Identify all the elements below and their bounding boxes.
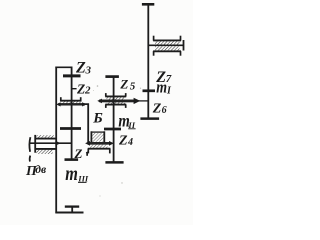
- gear Z1 tick: [60, 127, 81, 130]
- svg-text:Z: Z: [152, 101, 162, 116]
- svg-text:дв: дв: [35, 164, 46, 176]
- wire: bottom horizontal from shaft I: [55, 212, 83, 214]
- shaft I (left vertical): [55, 67, 57, 214]
- label m III: [65, 162, 78, 184]
- svg-text:II: II: [127, 120, 135, 130]
- gear Z3 tick: [63, 74, 81, 77]
- block B upper flanges + hatch: [91, 131, 105, 142]
- svg-text:5: 5: [130, 80, 136, 92]
- Z2 dash: [72, 88, 76, 90]
- wire: bracket from gear Z2 down to block B: [85, 104, 89, 143]
- gear Z2 (sliding gear on shaft II, upper rail): [60, 97, 82, 104]
- svg-text:Z: Z: [75, 60, 86, 77]
- svg-text:Z: Z: [118, 133, 128, 148]
- shaft IV top cap: [142, 3, 154, 6]
- svg-text:Z: Z: [74, 146, 83, 161]
- shaft III (x=113.6): [113, 76, 115, 163]
- svg-text:III: III: [77, 173, 89, 183]
- shaft III bottom bar: [105, 161, 123, 164]
- slide arrow of gear Z2: [56, 102, 86, 106]
- block B slide arrow: [85, 141, 114, 146]
- svg-text:3: 3: [85, 65, 92, 77]
- gear Z5 (sliding block on shaft III): [105, 93, 126, 108]
- svg-text:4: 4: [127, 137, 133, 148]
- shaft IV (right vertical): [147, 4, 149, 120]
- svg-text:2: 2: [84, 84, 91, 96]
- gear Z7 tick: [143, 89, 156, 92]
- speck: [97, 85, 99, 87]
- svg-text:6: 6: [162, 105, 167, 116]
- shaft II (middle vertical): [71, 67, 73, 160]
- svg-text:Z: Z: [119, 77, 128, 92]
- block B lower rail: [88, 145, 111, 154]
- label m I: [156, 78, 167, 97]
- motor input pulley (left): [29, 135, 71, 162]
- bearing T at bottom: [65, 207, 79, 213]
- svg-text:m: m: [156, 78, 167, 97]
- label m II: [118, 110, 129, 131]
- shaft II end bar: [65, 158, 79, 161]
- svg-text:Z: Z: [76, 81, 85, 96]
- slide arrow of gear Z5 toward shaft IV: [97, 98, 148, 104]
- shaft III top cap: [105, 75, 119, 78]
- shaft IV bottom bar: [140, 117, 159, 120]
- svg-text:m: m: [65, 162, 78, 184]
- gear Z4 tick: [104, 128, 121, 131]
- wire: top jog connecting shaft I to shaft II: [55, 66, 72, 68]
- svg-text:I: I: [166, 85, 172, 96]
- belt pulley on shaft IV: [148, 36, 184, 56]
- svg-text:Б: Б: [92, 111, 103, 127]
